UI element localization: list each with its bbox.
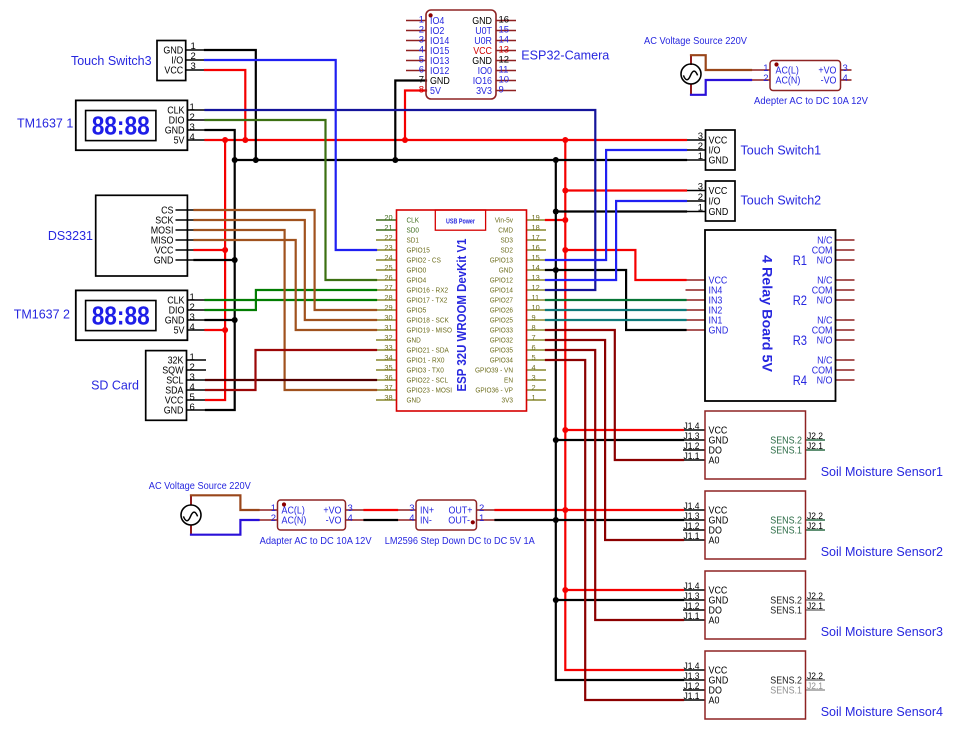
svg-text:Touch Switch3: Touch Switch3 [71, 54, 152, 68]
svg-text:18: 18 [532, 223, 540, 232]
svg-text:8: 8 [419, 85, 424, 96]
svg-text:SENS.1: SENS.1 [770, 526, 802, 537]
svg-text:24: 24 [384, 253, 392, 262]
svg-text:J1.2: J1.2 [684, 681, 700, 691]
svg-text:88:88: 88:88 [92, 113, 150, 141]
svg-text:SD1: SD1 [407, 235, 420, 244]
svg-text:21: 21 [384, 223, 392, 232]
svg-text:J2.1: J2.1 [807, 681, 823, 691]
svg-text:7: 7 [532, 333, 536, 342]
svg-text:N/O: N/O [817, 336, 833, 347]
svg-text:GND: GND [407, 335, 421, 344]
svg-text:SD2: SD2 [501, 245, 514, 254]
svg-text:GPIO21 - SDA: GPIO21 - SDA [407, 345, 449, 354]
svg-text:J2.1: J2.1 [807, 601, 823, 611]
svg-text:J1.1: J1.1 [684, 691, 700, 701]
svg-text:2: 2 [698, 192, 703, 203]
svg-text:4: 4 [190, 322, 195, 333]
svg-text:3: 3 [698, 182, 703, 193]
svg-text:1: 1 [698, 203, 703, 214]
svg-text:32: 32 [384, 333, 392, 342]
svg-text:GPIO2 - CS: GPIO2 - CS [407, 255, 441, 264]
svg-text:ESP 32U WROOM DevKit V1: ESP 32U WROOM DevKit V1 [455, 239, 469, 392]
svg-text:8: 8 [532, 323, 536, 332]
svg-text:GPIO4: GPIO4 [407, 275, 427, 284]
svg-text:J1.1: J1.1 [684, 531, 700, 541]
svg-text:6: 6 [532, 343, 536, 352]
svg-text:J1.1: J1.1 [684, 451, 700, 461]
svg-text:4: 4 [843, 73, 848, 84]
svg-text:GPIO16 - RX2: GPIO16 - RX2 [407, 285, 449, 294]
svg-text:SENS.1: SENS.1 [770, 606, 802, 617]
svg-text:Soil Moisture Sensor2: Soil Moisture Sensor2 [821, 545, 943, 559]
svg-text:GPIO35: GPIO35 [490, 345, 513, 354]
svg-text:GPIO27: GPIO27 [490, 295, 513, 304]
svg-text:GPIO14: GPIO14 [490, 285, 513, 294]
svg-text:IN-: IN- [420, 516, 432, 527]
svg-text:2: 2 [532, 383, 536, 392]
svg-text:10: 10 [532, 303, 540, 312]
svg-text:J1.4: J1.4 [684, 581, 700, 591]
svg-text:GND: GND [709, 326, 729, 337]
svg-text:Touch Switch2: Touch Switch2 [741, 194, 822, 208]
svg-text:28: 28 [384, 293, 392, 302]
svg-text:TM1637 2: TM1637 2 [14, 308, 70, 322]
svg-text:3V3: 3V3 [502, 395, 514, 404]
svg-text:CLK: CLK [407, 215, 420, 224]
svg-text:OUT-: OUT- [448, 516, 470, 527]
svg-text:4: 4 [532, 363, 536, 372]
svg-text:4: 4 [348, 513, 353, 524]
svg-text:1: 1 [479, 513, 484, 524]
svg-text:31: 31 [384, 323, 392, 332]
svg-text:3: 3 [532, 373, 536, 382]
svg-text:SD0: SD0 [407, 225, 420, 234]
svg-text:13: 13 [532, 273, 540, 282]
svg-text:GND: GND [407, 395, 421, 404]
svg-text:14: 14 [532, 263, 540, 272]
svg-text:Adapter AC to DC 10A 12V: Adapter AC to DC 10A 12V [260, 536, 372, 547]
svg-text:J2.1: J2.1 [807, 521, 823, 531]
svg-text:16: 16 [532, 243, 540, 252]
svg-text:AC Voltage Source 220V: AC Voltage Source 220V [149, 481, 251, 492]
svg-text:EN: EN [504, 375, 513, 384]
svg-text:J2.1: J2.1 [807, 441, 823, 451]
svg-text:26: 26 [384, 273, 392, 282]
svg-text:9: 9 [499, 85, 504, 96]
svg-text:30: 30 [384, 313, 392, 322]
svg-text:GPIO15: GPIO15 [407, 245, 430, 254]
svg-text:36: 36 [384, 373, 392, 382]
svg-text:GPIO23 - MOSI: GPIO23 - MOSI [407, 385, 453, 394]
svg-text:R1: R1 [793, 253, 807, 269]
svg-text:R2: R2 [793, 293, 807, 309]
svg-text:GPIO12: GPIO12 [490, 275, 513, 284]
svg-text:38: 38 [384, 393, 392, 402]
svg-text:SENS.1: SENS.1 [770, 686, 802, 697]
svg-text:35: 35 [384, 363, 392, 372]
svg-text:1: 1 [532, 393, 536, 402]
svg-text:2: 2 [271, 513, 276, 524]
svg-text:GND: GND [164, 406, 184, 417]
svg-text:J1.4: J1.4 [684, 421, 700, 431]
svg-text:DS3231: DS3231 [48, 229, 93, 243]
svg-text:ESP32-Camera: ESP32-Camera [521, 49, 610, 63]
svg-text:5V: 5V [174, 136, 185, 147]
svg-text:CMD: CMD [498, 225, 513, 234]
svg-text:J1.2: J1.2 [684, 521, 700, 531]
svg-text:R3: R3 [793, 333, 807, 349]
svg-text:GND: GND [709, 207, 729, 218]
svg-text:J2.2: J2.2 [807, 591, 823, 601]
svg-text:J1.4: J1.4 [684, 661, 700, 671]
svg-text:GPIO32: GPIO32 [490, 335, 513, 344]
svg-text:SD Card: SD Card [91, 379, 139, 393]
svg-text:GPIO17 - TX2: GPIO17 - TX2 [407, 295, 448, 304]
svg-text:9: 9 [532, 313, 536, 322]
svg-text:15: 15 [532, 253, 540, 262]
svg-text:22: 22 [384, 233, 392, 242]
svg-text:-VO: -VO [821, 76, 837, 87]
svg-text:-VO: -VO [326, 516, 342, 527]
svg-text:Soil Moisture Sensor4: Soil Moisture Sensor4 [821, 705, 943, 719]
svg-text:3V3: 3V3 [476, 86, 492, 97]
svg-text:GPIO22 - SCL: GPIO22 - SCL [407, 375, 449, 384]
svg-text:A0: A0 [709, 616, 720, 627]
svg-text:GPIO36 - VP: GPIO36 - VP [475, 385, 513, 394]
svg-text:GPIO18 - SCK: GPIO18 - SCK [407, 315, 449, 324]
svg-text:3: 3 [191, 61, 196, 72]
svg-text:5: 5 [532, 353, 536, 362]
svg-text:GPIO26: GPIO26 [490, 305, 513, 314]
svg-text:GPIO34: GPIO34 [490, 355, 513, 364]
svg-text:GPIO19 - MISO: GPIO19 - MISO [407, 325, 453, 334]
svg-text:GPIO13: GPIO13 [490, 255, 513, 264]
svg-text:AC Voltage Source 220V: AC Voltage Source 220V [644, 36, 747, 47]
svg-text:17: 17 [532, 233, 540, 242]
svg-text:27: 27 [384, 283, 392, 292]
svg-text:5V: 5V [174, 326, 185, 337]
svg-text:25: 25 [384, 263, 392, 272]
svg-text:GPIO33: GPIO33 [490, 325, 513, 334]
svg-text:37: 37 [384, 383, 392, 392]
svg-text:I/O: I/O [709, 197, 721, 208]
svg-text:J2.2: J2.2 [807, 511, 823, 521]
svg-text:Vin-5v: Vin-5v [495, 215, 514, 224]
svg-text:4: 4 [190, 132, 195, 143]
svg-text:N/O: N/O [817, 256, 833, 267]
svg-text:J1.2: J1.2 [684, 441, 700, 451]
svg-text:33: 33 [384, 343, 392, 352]
svg-text:GPIO0: GPIO0 [407, 265, 427, 274]
svg-text:AC(N): AC(N) [282, 516, 307, 527]
svg-text:J1.3: J1.3 [684, 671, 700, 681]
svg-text:23: 23 [384, 243, 392, 252]
svg-text:4: 4 [409, 513, 414, 524]
svg-text:34: 34 [384, 353, 392, 362]
svg-text:VCC: VCC [164, 66, 183, 77]
svg-text:2: 2 [763, 73, 768, 84]
svg-text:N/O: N/O [817, 376, 833, 387]
svg-text:J2.2: J2.2 [807, 431, 823, 441]
svg-text:J1.3: J1.3 [684, 431, 700, 441]
svg-text:GND: GND [154, 256, 174, 267]
svg-text:J1.4: J1.4 [684, 501, 700, 511]
svg-text:GPIO39 - VN: GPIO39 - VN [475, 365, 513, 374]
svg-text:1: 1 [698, 151, 703, 162]
svg-text:12: 12 [532, 283, 540, 292]
svg-text:Soil Moisture Sensor3: Soil Moisture Sensor3 [821, 625, 943, 639]
svg-text:19: 19 [532, 213, 540, 222]
svg-text:GPIO25: GPIO25 [490, 315, 513, 324]
svg-text:J1.3: J1.3 [684, 511, 700, 521]
svg-text:4 Relay Board 5V: 4 Relay Board 5V [760, 255, 775, 372]
svg-text:J1.3: J1.3 [684, 591, 700, 601]
svg-text:Touch Switch1: Touch Switch1 [741, 144, 822, 158]
svg-text:J1.2: J1.2 [684, 601, 700, 611]
svg-text:A0: A0 [709, 536, 720, 547]
svg-text:GND: GND [709, 156, 729, 167]
svg-text:Adepter AC to DC 10A 12V: Adepter AC to DC 10A 12V [754, 96, 868, 107]
svg-text:6: 6 [190, 402, 195, 413]
svg-text:R4: R4 [793, 373, 807, 389]
svg-text:SD3: SD3 [501, 235, 514, 244]
svg-text:GND: GND [499, 265, 513, 274]
svg-text:VCC: VCC [709, 186, 728, 197]
svg-text:5V: 5V [430, 86, 441, 97]
svg-text:29: 29 [384, 303, 392, 312]
svg-text:A0: A0 [709, 456, 720, 467]
svg-text:GPIO5: GPIO5 [407, 305, 427, 314]
svg-text:J2.2: J2.2 [807, 671, 823, 681]
svg-text:GPIO1 - RX0: GPIO1 - RX0 [407, 355, 445, 364]
svg-text:LM2596 Step Down DC to DC 5V 1: LM2596 Step Down DC to DC 5V 1A [385, 536, 535, 547]
svg-text:J1.1: J1.1 [684, 611, 700, 621]
svg-text:20: 20 [384, 213, 392, 222]
svg-text:Soil Moisture Sensor1: Soil Moisture Sensor1 [821, 465, 943, 479]
svg-text:TM1637 1: TM1637 1 [17, 117, 73, 131]
svg-text:88:88: 88:88 [92, 303, 150, 331]
svg-text:SENS.1: SENS.1 [770, 446, 802, 457]
svg-text:11: 11 [532, 293, 540, 302]
svg-text:USB Power: USB Power [446, 217, 475, 226]
svg-text:A0: A0 [709, 696, 720, 707]
svg-text:GPIO3 - TX0: GPIO3 - TX0 [407, 365, 444, 374]
svg-text:N/O: N/O [817, 296, 833, 307]
svg-text:AC(N): AC(N) [776, 76, 801, 87]
